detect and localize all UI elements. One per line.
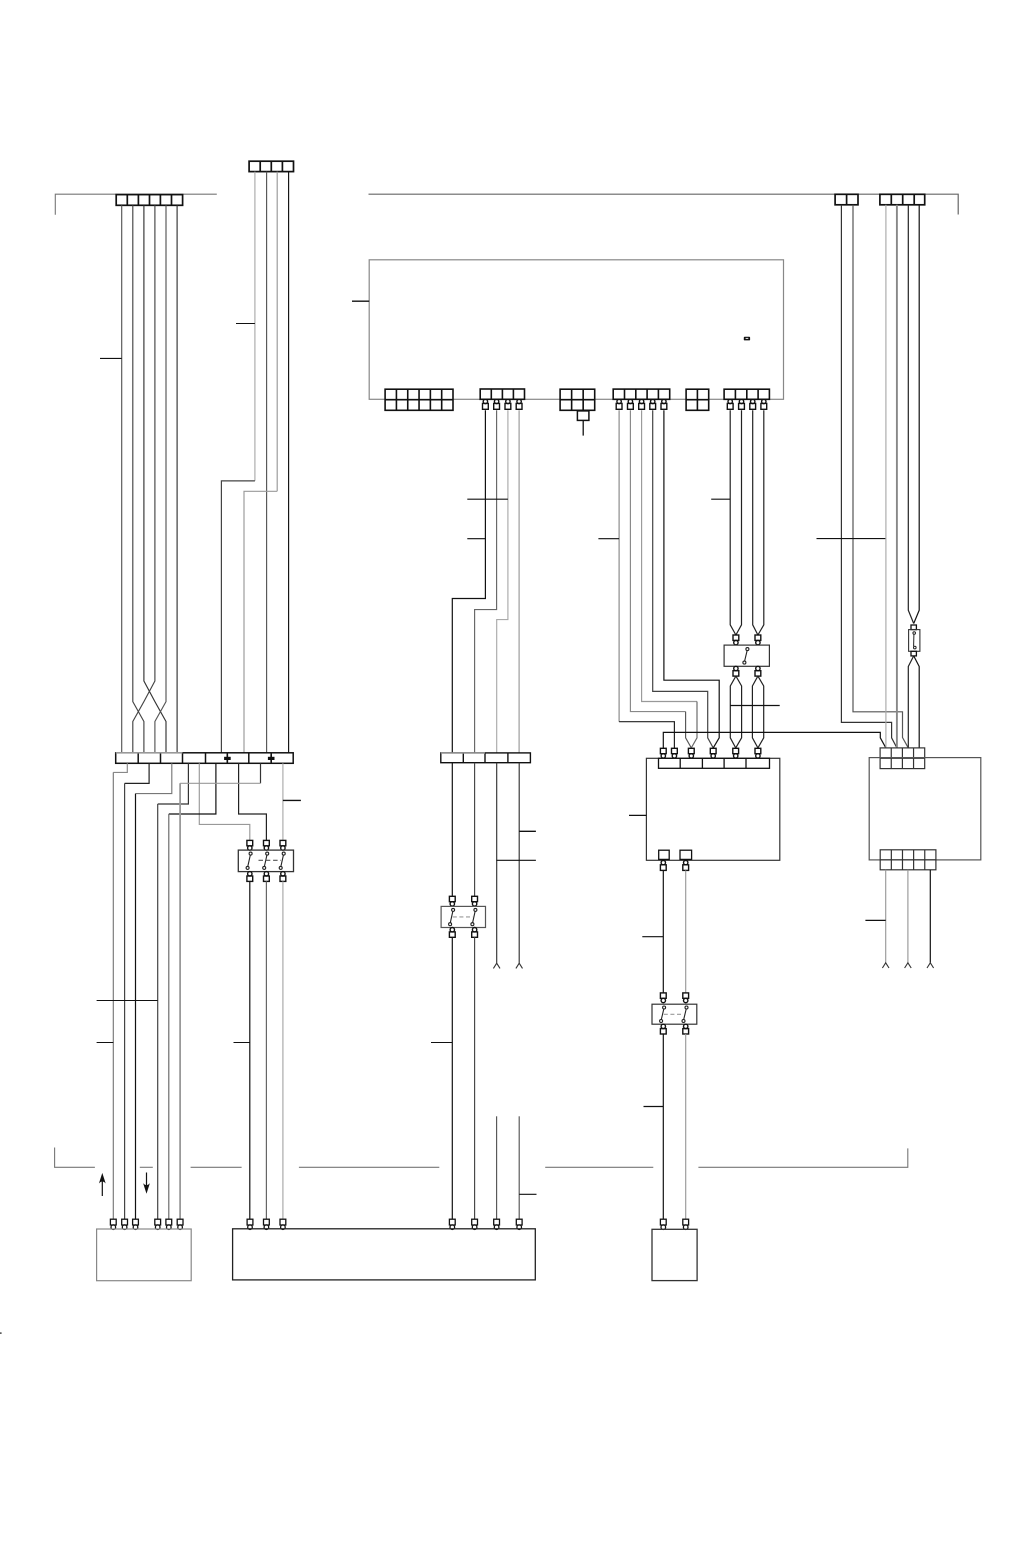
drive motor unit (97, 1229, 192, 1281)
wire CN10-2 (896, 205, 898, 748)
switch SW2 pin 3 (449, 928, 455, 938)
wire CN1-5 (crossover) (155, 205, 166, 753)
callout tick CN1 bundle (100, 357, 122, 359)
pin CN4-2 (494, 399, 500, 409)
pin CN6-3 (639, 399, 645, 409)
wire TB1-9 to power switch pole 3 (282, 763, 284, 840)
wire transformer out 2 (907, 870, 909, 963)
wire CN4-3 (497, 410, 508, 753)
flow arrow down (143, 1173, 150, 1194)
wire CN1-2 (crossover) (133, 205, 144, 753)
door switch SW3 pin 3 (733, 666, 739, 676)
wire transformer out 1 (885, 870, 887, 963)
wire TB1-6 (169, 763, 216, 1219)
callout tick middle bundle upper (467, 498, 508, 500)
pin CN6-2 (628, 399, 634, 409)
wire CN2-2 (266, 172, 268, 753)
connector CN4 (4-pin) (480, 389, 524, 399)
wire CN6-3 to relay (642, 410, 697, 748)
power switch SW1 body (3-pole) (238, 850, 293, 872)
wire W-disp-2 (518, 1116, 520, 1219)
jumper mark on PCB (744, 337, 750, 341)
switch SW2 pin 4 (472, 928, 478, 938)
wire TB2-1 to interlock switch (451, 763, 453, 897)
pump switch SW4 pin 1 (660, 993, 666, 1003)
wire SW3 pair A to relay (730, 676, 741, 748)
connector CN10 (4-pin header) (880, 194, 925, 205)
relay unit pins top (660, 748, 760, 758)
wire transformer out 3 (929, 870, 931, 963)
wire-end arrow transformer 2 (905, 963, 912, 968)
door switch SW3 pin 2 (755, 635, 761, 645)
edge mark (0, 1332, 2, 1334)
power switch SW1 pin bottom 2 (264, 872, 270, 882)
wire CN8-1 (730, 410, 736, 635)
thermal switch SW5 pin bottom (911, 651, 916, 656)
wire CN4-2 (475, 410, 497, 753)
wire CN10-4 to thermal switch (914, 205, 920, 624)
callout tick switch wire (234, 1042, 250, 1044)
drive motor unit pins (110, 1219, 183, 1229)
wire CN1-1 (121, 205, 123, 753)
callout tick transformer (865, 919, 885, 921)
power switch SW1 pin top 2 (264, 840, 270, 850)
wire TB1-4 (158, 763, 189, 1219)
door switch SW3 body (724, 645, 769, 666)
wire relay to pump switch 1 (662, 870, 664, 993)
callout tick motor bundle b (97, 1042, 114, 1044)
pin CN4-4 (516, 399, 522, 409)
wire CN2-4 (288, 172, 290, 753)
wire CN4-1 (452, 410, 485, 753)
flow arrow up (99, 1173, 106, 1196)
wire TB1-8 (180, 763, 260, 1219)
wire CN1-3 (crossover) (144, 205, 166, 753)
transformer unit terminal strip bottom (880, 850, 936, 870)
callout tick PCB (352, 300, 369, 302)
wire relay to pump switch 2 (685, 870, 687, 993)
power switch SW1 pin bottom 3 (280, 872, 286, 882)
door switch SW3 pin 1 (733, 635, 739, 645)
pump switch SW4 pin 3 (660, 1024, 666, 1034)
pin CN4-1 (483, 399, 489, 409)
wire CN4-4 (518, 410, 520, 753)
connector CN6 (5-pin) (613, 389, 670, 399)
pin CN4-3 (505, 399, 511, 409)
pin CN6-1 (616, 399, 622, 409)
wire SW3 pair B to relay (752, 676, 763, 748)
callout tick CN8 bundle (711, 498, 730, 500)
wire SW1-1 to motor unit (249, 881, 251, 1219)
callout tick relay wire (642, 936, 663, 938)
callout tick interlock wire (431, 1042, 452, 1044)
wire SW1-2 to motor unit (265, 881, 267, 1219)
wire TB1-7 to power switch pole 2 (239, 763, 267, 840)
wire W-disp-1 (496, 1116, 498, 1219)
connector CN1 (6-pin header) (116, 195, 182, 206)
wire SW5 pair to transformer (908, 656, 919, 748)
relay unit body (646, 758, 779, 860)
pump switch SW4 pin 2 (683, 993, 689, 1003)
wire CN2-1 (221, 172, 255, 753)
wire-end arrow transformer 1 (882, 963, 889, 968)
callout tick CN9 bundle (817, 538, 886, 540)
wire CN6-4 to relay (653, 410, 714, 748)
connector CN5 (3x2 grid) (560, 389, 595, 410)
pin CN6-4 (650, 399, 656, 409)
callout tick pump wire (644, 1106, 664, 1108)
pin CN8-4 (761, 399, 767, 409)
power switch SW1 pin top 3 (280, 840, 286, 850)
terminal stub CN5 (577, 411, 589, 436)
pin CN8-3 (750, 399, 756, 409)
wire SW1-3 to motor unit (282, 881, 284, 1219)
wire SW2-4 to motor unit (474, 937, 476, 1219)
terminal strip TB1 (8-way) (116, 753, 294, 764)
callout tick CN2 bundle (236, 323, 255, 325)
connector CN7 (2x2 grid) (686, 389, 709, 410)
wire TB1-5 to power switch pole 1 (199, 763, 250, 840)
callout tick middle bundle lower (467, 538, 485, 540)
wire SW4 to pump 2 (685, 1034, 687, 1219)
wire CN2-3 (244, 172, 277, 753)
wire CN10-3 to thermal switch (908, 205, 913, 624)
wire relay pin1 to transformer (663, 732, 886, 748)
transformer unit terminal strip top (880, 748, 925, 769)
wire TB2-4 open end (518, 763, 520, 963)
pin CN8-2 (739, 399, 745, 409)
relay pin bottom 2 (683, 860, 689, 870)
main PCB (control board) (369, 260, 783, 400)
wire TB1-2 (125, 763, 150, 1219)
wire TB1-1 (113, 763, 127, 1219)
main motor unit (233, 1229, 536, 1280)
callout tick TB1-9 (283, 799, 301, 801)
connector CN2 (4-pin header) (249, 161, 293, 171)
pin CN6-5 (661, 399, 667, 409)
callout tick TB2 pair (496, 859, 536, 861)
connector CN3 (6x2 grid) (385, 389, 453, 410)
wire CN8-2 (736, 410, 742, 635)
callout tick TB2 pair upper (519, 830, 536, 832)
wire CN6-5 to relay (664, 410, 719, 748)
callout tick SW3 pairs (730, 705, 779, 707)
wire-end arrow TB2-4 (516, 963, 523, 968)
wire CN6-1 to relay (619, 410, 674, 748)
callout tick relay left (629, 814, 646, 816)
wire-end arrow transformer 3 (927, 963, 934, 968)
callout tick CN6 bundle (598, 538, 619, 540)
terminal strip TB2 (4-way) (441, 753, 531, 763)
wire CN10-1 (885, 205, 887, 748)
wire SW2-3 to motor unit (451, 937, 453, 1219)
pump unit (652, 1229, 697, 1280)
pump switch SW4 body (652, 1004, 697, 1024)
transformer unit body (869, 758, 981, 860)
power switch SW1 pin top 1 (247, 840, 253, 850)
polarity mark TB1-b (268, 755, 275, 763)
wire TB2-3 open end (496, 763, 498, 963)
door switch SW3 pin 4 (755, 666, 761, 676)
switch SW2 body (2-pole) (441, 906, 485, 927)
switch SW2 pin 2 (472, 896, 478, 906)
wire CN1-6 (176, 205, 178, 753)
wire CN9-2 (853, 205, 908, 748)
pump unit pins (660, 1219, 688, 1229)
wire CN6-2 to relay (630, 410, 691, 748)
wire TB2-2 to interlock switch (474, 763, 476, 897)
wire TB1-3 (136, 763, 172, 1219)
pin CN8-1 (727, 399, 733, 409)
wire CN1-4 (crossover) (133, 205, 155, 753)
power switch SW1 pin bottom 1 (247, 872, 253, 882)
frame line top-right with bracket (369, 194, 959, 214)
wire-end arrow TB2-3 (493, 963, 500, 968)
wire CN8-4 (758, 410, 764, 635)
connector CN9 (2-pin header) (835, 194, 858, 205)
pump switch SW4 pin 4 (683, 1024, 689, 1034)
thermal switch SW5 pin top (911, 625, 916, 630)
wire CN8-3 (753, 410, 758, 635)
frame line bottom (55, 1148, 908, 1168)
frame bracket top-left (55, 194, 217, 215)
polarity mark TB1-a (224, 755, 231, 763)
switch SW2 pin 1 (449, 896, 455, 906)
relay pin bottom 1 (660, 860, 666, 870)
main motor unit pins (247, 1219, 522, 1229)
callout tick motor bundle a (97, 1000, 158, 1002)
wire SW4 to pump 1 (662, 1034, 664, 1219)
wire CN9-1 (841, 205, 897, 748)
connector CN8 (4-pin) (724, 389, 769, 399)
thermal switch SW5 body (909, 630, 920, 652)
callout tick W-disp (519, 1193, 536, 1195)
